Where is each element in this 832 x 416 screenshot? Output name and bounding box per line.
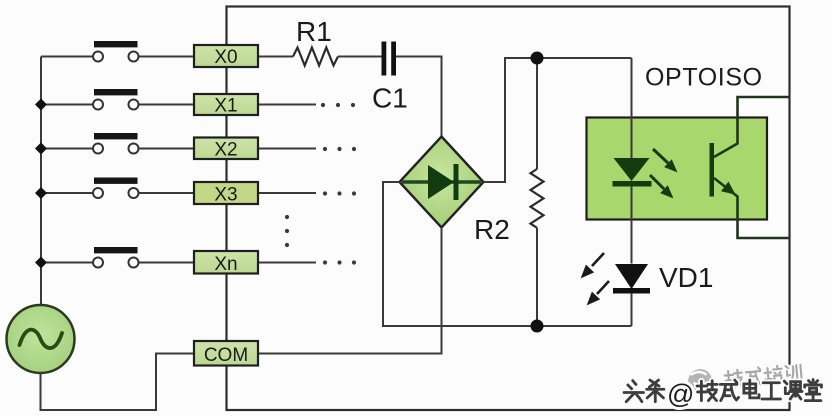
- left bus wire: [40, 57, 42, 306]
- junction diamond X1 row: [35, 99, 47, 111]
- VD1 emission arrow 1: [582, 253, 604, 277]
- junction dot top node: [531, 52, 544, 65]
- wire VD1 cathode to bottom rail: [631, 293, 633, 326]
- terminal box X0: [194, 45, 258, 68]
- svg-text:COM: COM: [204, 345, 248, 366]
- phototransistor emitter wire to right edge: [714, 178, 790, 238]
- bridge internal horizontal line: [402, 180, 481, 183]
- wire X3 stub: [258, 192, 316, 194]
- PLC module boundary rectangle: [227, 7, 790, 411]
- wire X0 row left: [41, 56, 93, 58]
- wire top rail into opto LED anode: [631, 58, 633, 158]
- wire X0 row right: [139, 56, 195, 58]
- terminal box X2: [194, 138, 258, 161]
- svg-text:C1: C1: [372, 83, 408, 114]
- wire bridge left corner down to bottom rail: [383, 182, 632, 326]
- wire X1 row right: [139, 104, 195, 106]
- svg-text:X3: X3: [214, 185, 237, 206]
- opto LED cathode bar: [613, 181, 652, 187]
- bridge rectifier diamond: [400, 137, 484, 228]
- wire Xn row right: [139, 262, 195, 264]
- junction diamond Xn row: [35, 257, 47, 269]
- dots X1 row: [321, 103, 355, 107]
- bridge internal diode: [428, 165, 454, 199]
- capacitor C1 plates: [382, 42, 387, 76]
- wire R1 to C1: [338, 56, 382, 58]
- wire bridge bottom corner to COM: [258, 228, 442, 354]
- svg-text:Xn: Xn: [214, 254, 237, 275]
- switch S3: [93, 178, 139, 199]
- LED VD1 cathode bar: [613, 288, 650, 294]
- VD1 emission arrow 2: [588, 281, 609, 304]
- phototransistor base bar: [710, 143, 715, 197]
- wire X1 stub: [258, 104, 316, 106]
- wire bridge right corner up to top rail: [484, 58, 632, 182]
- wire X0 to R1: [258, 56, 293, 58]
- switch S2: [93, 133, 139, 154]
- junction diamond X2 row: [35, 143, 47, 155]
- junction diamond X3 row: [35, 187, 47, 199]
- LED VD1 triangle: [615, 264, 648, 289]
- svg-text:OPTOISO: OPTOISO: [645, 64, 763, 92]
- terminal box X3: [194, 182, 258, 206]
- dots Xn row: [323, 260, 356, 264]
- opto light arrow 1: [653, 149, 676, 171]
- watermark dark text halo: [624, 380, 821, 402]
- phototransistor emitter arrowhead: [722, 183, 734, 194]
- dots X2 row: [323, 147, 356, 151]
- switch Sn: [93, 247, 139, 268]
- wire X1 row left: [41, 104, 93, 106]
- wire AC source bottom to COM: [41, 354, 195, 411]
- svg-text:X0: X0: [214, 47, 237, 68]
- terminal box Xn: [194, 251, 258, 275]
- wire Xn row left: [41, 262, 93, 264]
- optocoupler U1 box: [587, 118, 768, 220]
- svg-text:R1: R1: [296, 16, 332, 47]
- resistor R1 zigzag: [293, 48, 338, 66]
- svg-text:@: @: [667, 379, 694, 409]
- phototransistor collector wire to right edge: [714, 97, 790, 157]
- dots X3 row: [323, 191, 356, 195]
- wire X3 row right: [139, 192, 195, 194]
- wire X2 row left: [41, 148, 93, 150]
- junction dot bottom node: [531, 320, 544, 333]
- wire Xn stub: [258, 262, 316, 264]
- watermark gray logo circle: [687, 360, 802, 394]
- switch S0: [93, 41, 139, 62]
- wire X2 stub: [258, 148, 316, 150]
- wire opto LED cathode down to VD1: [631, 186, 633, 264]
- wire X3 row left: [41, 192, 93, 194]
- AC source G1 circle: [7, 305, 75, 373]
- terminal box COM: [194, 341, 258, 366]
- AC source sine wave: [20, 330, 63, 348]
- svg-text:X1: X1: [214, 96, 237, 117]
- wire X2 row right: [139, 148, 195, 150]
- svg-text:VD1: VD1: [659, 262, 713, 293]
- opto light arrow 2: [650, 175, 672, 197]
- svg-text:X2: X2: [214, 140, 237, 161]
- resistor R2 wire and zigzag: [536, 58, 538, 169]
- opto LED triangle: [614, 158, 650, 181]
- vertical ellipsis dots between X3 and Xn: [285, 215, 289, 247]
- switch S1: [93, 89, 139, 110]
- wire C1 to bridge top corner: [396, 57, 442, 138]
- terminal box X1: [194, 94, 258, 117]
- svg-text:R2: R2: [474, 214, 510, 245]
